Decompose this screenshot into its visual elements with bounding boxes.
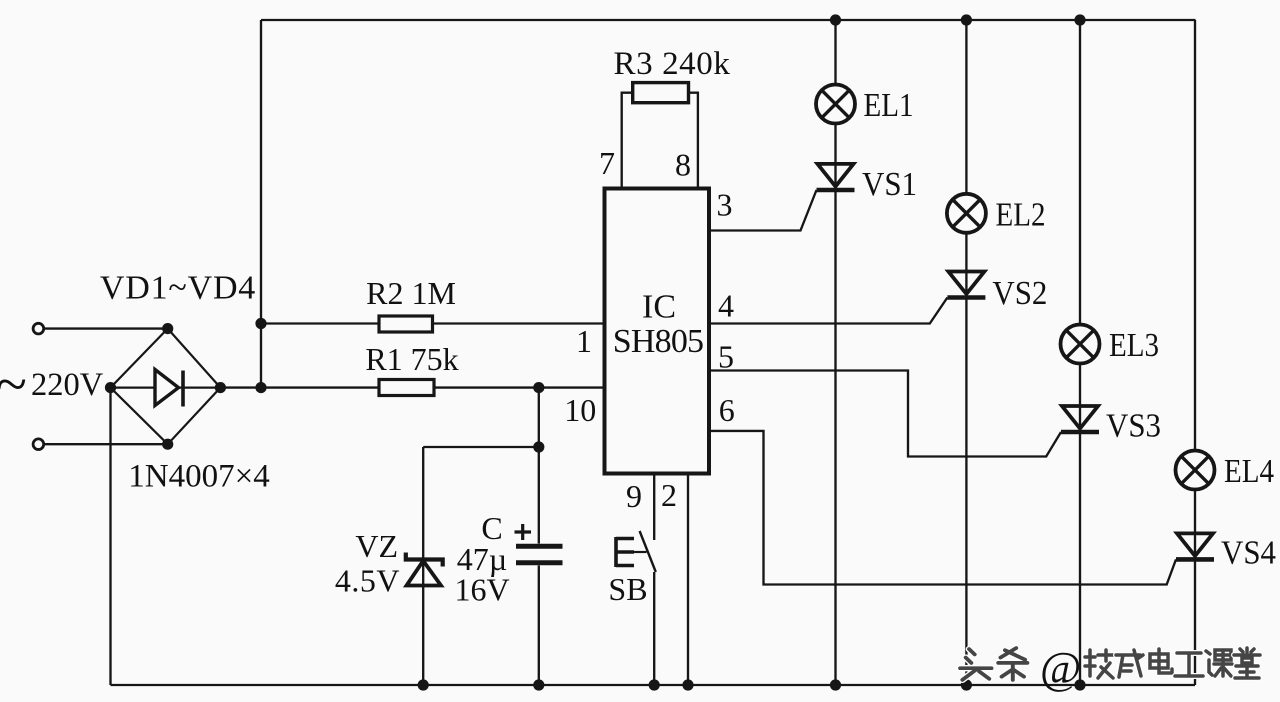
node bridge bottom xyxy=(162,439,173,450)
svg-text:~: ~ xyxy=(0,353,27,416)
watermark 头条 @技成电工课堂 xyxy=(960,643,1260,693)
svg-text:4.5V: 4.5V xyxy=(335,563,400,599)
watermark char dian xyxy=(1150,649,1172,673)
thyristor VS4 xyxy=(1176,533,1214,559)
wire lower AC lead xyxy=(44,443,168,445)
svg-text:R2 1M: R2 1M xyxy=(366,275,456,311)
thyristor VS1 xyxy=(817,164,855,190)
watermark char tiao xyxy=(998,648,1027,680)
wire bottom rail xyxy=(111,684,1196,686)
wire R1 junction down to C/VZ node xyxy=(538,388,540,447)
svg-text:R1 75k: R1 75k xyxy=(365,341,458,377)
svg-text:EL4: EL4 xyxy=(1224,453,1274,490)
svg-text:EL3: EL3 xyxy=(1109,327,1159,364)
svg-text:SH805: SH805 xyxy=(613,323,703,360)
svg-text:R3 240k: R3 240k xyxy=(614,46,731,82)
node bridge left xyxy=(105,382,116,393)
wire pin 3 to VS1 gate xyxy=(709,190,817,231)
svg-text:EL1: EL1 xyxy=(864,87,914,124)
node bridge right xyxy=(215,382,226,393)
watermark char ji xyxy=(1085,650,1114,678)
resistor R2 xyxy=(379,316,433,332)
wire lamp branch EL4/VS4 xyxy=(1194,20,1196,685)
lamp EL4 xyxy=(1176,451,1215,490)
node bottom rail SB branch xyxy=(649,679,660,690)
svg-text:VS1: VS1 xyxy=(862,166,917,203)
watermark char cheng xyxy=(1116,650,1143,677)
wire VZ branch vertical xyxy=(422,447,424,685)
watermark char tou xyxy=(960,649,991,680)
wire lamp branch EL1/VS1 xyxy=(834,20,836,685)
svg-text:VS2: VS2 xyxy=(992,275,1047,312)
wire R3 pin 7 xyxy=(622,93,633,189)
watermark char ke xyxy=(1206,650,1232,676)
svg-text:VS4: VS4 xyxy=(1221,535,1276,572)
svg-text:IC: IC xyxy=(642,289,676,326)
wire node to VZ branch xyxy=(423,446,539,448)
svg-text:6: 6 xyxy=(719,392,735,428)
wire R3 pin 8 xyxy=(689,93,698,189)
bridge rectifier VD1~VD4 diamond xyxy=(111,329,221,445)
op-amp IC SH805 box xyxy=(605,189,710,474)
wire pin 9 to switch SB xyxy=(653,474,655,541)
watermark char tang xyxy=(1234,648,1260,678)
wire R2 line (pin 1) xyxy=(261,322,605,324)
wire lamp branch EL2/VS2 xyxy=(965,20,967,685)
node bottom rail C branch xyxy=(533,679,544,690)
node bottom rail VZ branch xyxy=(418,679,429,690)
node junction R1/vertical xyxy=(255,382,266,393)
node top rail EL1 branch xyxy=(830,14,841,25)
lamp EL2 xyxy=(947,194,986,233)
wire pin 2 to bottom rail xyxy=(687,474,689,686)
node top rail EL3 branch xyxy=(1074,14,1085,25)
node bottom rail pin2 branch xyxy=(682,679,693,690)
svg-text:16V: 16V xyxy=(454,572,509,608)
node bridge top xyxy=(162,323,173,334)
wire top supply rail xyxy=(261,19,1196,21)
svg-text:2: 2 xyxy=(661,477,677,513)
svg-text:1: 1 xyxy=(576,323,592,359)
svg-text:VZ: VZ xyxy=(355,528,398,564)
wire left vertical from top rail to bridge output xyxy=(260,20,262,388)
wire upper AC lead xyxy=(44,327,168,329)
wire lamp branch EL3/VS3 xyxy=(1079,20,1081,685)
switch SB blade xyxy=(640,531,656,572)
svg-text:@: @ xyxy=(1040,643,1081,693)
wire SB lower to bottom rail xyxy=(653,572,655,685)
node junction R1/C branch xyxy=(533,382,544,393)
svg-text:VS3: VS3 xyxy=(1106,408,1161,445)
svg-text:8: 8 xyxy=(675,147,691,183)
terminal AC input upper xyxy=(33,323,44,334)
svg-text:VD1~VD4: VD1~VD4 xyxy=(100,270,256,307)
wire pin 4 to VS2 gate xyxy=(709,298,947,324)
svg-text:7: 7 xyxy=(599,145,615,181)
svg-text:9: 9 xyxy=(626,478,642,514)
svg-text:220V: 220V xyxy=(31,367,104,403)
wire R1 line (pin 10) xyxy=(220,386,604,388)
terminal AC input lower xyxy=(33,439,44,450)
capacitor C xyxy=(516,546,563,563)
node bottom rail VS3 branch xyxy=(1074,679,1085,690)
node bottom rail VS2 branch xyxy=(961,679,972,690)
zener diode VZ xyxy=(406,553,443,586)
svg-text:SB: SB xyxy=(608,571,647,607)
svg-text:5: 5 xyxy=(718,339,734,375)
svg-text:3: 3 xyxy=(717,186,733,222)
svg-text:1N4007×4: 1N4007×4 xyxy=(128,459,269,495)
node top rail EL2 branch xyxy=(961,14,972,25)
wire pin 5 to VS3 gate xyxy=(709,371,1061,457)
node junction C/VZ branch xyxy=(533,441,544,452)
svg-text:4: 4 xyxy=(718,287,734,323)
thyristor VS3 xyxy=(1061,406,1099,432)
watermark char gong xyxy=(1175,653,1203,676)
lamp EL3 xyxy=(1061,325,1100,364)
diode symbol inside bridge xyxy=(155,370,183,407)
svg-text:EL2: EL2 xyxy=(996,197,1046,234)
lamp EL1 xyxy=(816,85,855,124)
resistor R1 xyxy=(379,380,434,396)
resistor R3 xyxy=(633,83,689,103)
thyristor VS2 xyxy=(947,272,985,298)
node junction R2/vertical xyxy=(255,318,266,329)
wire capacitor branch upper xyxy=(538,447,540,544)
switch SB actuator E xyxy=(616,537,634,567)
switch SB actuator link xyxy=(634,551,647,553)
node bottom rail VS1 branch xyxy=(830,679,841,690)
svg-text:10: 10 xyxy=(564,392,596,428)
wire pin 6 to VS4 gate xyxy=(709,431,1176,585)
wire capacitor branch lower xyxy=(538,566,540,686)
wire bridge negative down to bottom rail xyxy=(109,388,111,685)
capacitor plus sign xyxy=(515,524,532,540)
